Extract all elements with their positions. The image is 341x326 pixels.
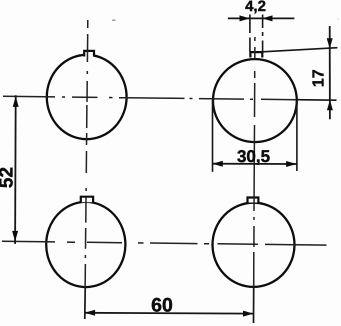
hole top-right: [213, 59, 297, 142]
dimension line 30,5: [212, 163, 296, 165]
faint scan speck: [112, 19, 116, 21]
arrowhead 52 bottom (points down): [12, 231, 18, 242]
dimension line 52: [14, 95, 17, 244]
center line vertical right column: [254, 37, 255, 287]
arrowhead 52 top (points up): [13, 96, 19, 107]
faint scan speck: [338, 18, 339, 20]
extension line below bottom-right hole (60 dim right reference): [253, 287, 255, 323]
dimension line 4,2: [228, 17, 295, 19]
extension line left edge of 4,2 slot: [249, 15, 251, 52]
hole bottom-right: [213, 203, 295, 287]
hole bottom-left: [46, 202, 125, 287]
center line horizontal bottom row: [2, 241, 327, 245]
arrowhead 60 left (points left): [85, 310, 96, 316]
arrowhead 17 top (points down): [327, 38, 333, 48]
arrowhead 60 right (points right): [243, 311, 254, 317]
svg-text:30,5: 30,5: [237, 147, 270, 166]
extension line top of 17 dim (from notch top to right): [263, 48, 338, 52]
center line horizontal top row: [3, 96, 296, 99]
svg-text:60: 60: [151, 295, 173, 317]
svg-text:52: 52: [0, 167, 17, 188]
arrowhead 30,5 right (points right): [286, 161, 297, 167]
key notch of bottom-left hole: [81, 197, 93, 203]
arrowhead 4,2 left (points right): [240, 15, 251, 21]
extension line right edge of 4,2 slot: [262, 15, 264, 52]
arrowhead 4,2 right (points left): [262, 15, 273, 21]
arrowhead 30,5 left (points left): [212, 161, 223, 167]
arrowhead 17 bottom (points up): [327, 100, 333, 110]
center line vertical left column: [85, 20, 88, 288]
key notch of bottom-right hole: [248, 198, 259, 203]
key notch of top-left hole: [84, 51, 94, 57]
extension line left of 30,5 dim: [212, 101, 214, 172]
dimension line 17: [329, 26, 331, 119]
extension line below bottom-left hole (60 dim left reference): [84, 288, 86, 319]
svg-text:4,2: 4,2: [245, 0, 266, 15]
hole top-left: [47, 55, 127, 139]
extension line right of top row (17 dim lower reference): [296, 99, 337, 102]
extension line right of 30,5 dim: [296, 101, 298, 171]
svg-text:17: 17: [311, 69, 328, 87]
dimension line 60: [85, 312, 254, 315]
key notch of top-right hole: [250, 52, 262, 57]
